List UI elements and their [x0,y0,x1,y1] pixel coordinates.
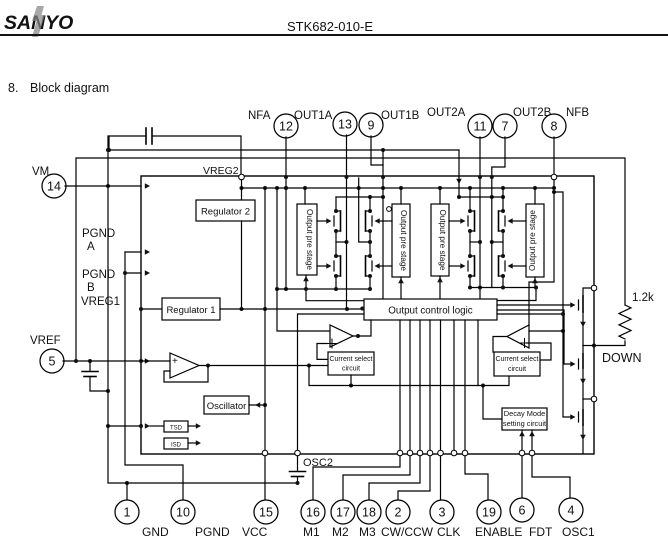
junction [534,286,538,290]
wire U3 out [493,337,507,353]
IC block outline [141,176,594,454]
junction [468,186,472,190]
svg-text:Regulator 2: Regulator 2 [201,207,250,218]
junction [368,229,372,233]
FET Q7 gate wire [512,220,526,222]
GND left rail [108,136,297,483]
junction [478,175,482,179]
junction [296,481,300,485]
wire pin12 [285,137,287,289]
junction [304,287,308,291]
pin 14 circle [42,174,66,198]
bridge A colL tie [336,241,347,243]
comparator U3 plus [520,342,529,344]
junction [123,271,127,275]
arrow PGND B into IC [145,270,150,276]
junction [501,209,505,213]
svg-text:6: 6 [519,504,526,518]
junction [240,307,244,311]
junction [206,364,210,368]
svg-text:11: 11 [474,120,487,134]
svg-text:Output pre stage: Output pre stage [399,210,408,271]
pin 12 circle [274,114,298,138]
junction [74,359,78,363]
pin 3 circle [430,500,454,524]
bus node [417,450,423,456]
bus wire [419,320,421,450]
wire OSC1 [532,456,570,499]
svg-text:PGND: PGND [82,228,115,240]
junction [345,175,349,179]
node VREG2 circle [239,174,245,180]
FET Q4 gate arrow [375,263,380,269]
FET Q2 gate arrow [326,263,331,269]
svg-text:A: A [87,241,95,253]
junction [468,229,472,233]
svg-text:STK682-010-E: STK682-010-E [287,19,373,34]
pin 15 circle [254,500,278,524]
arrow T3 gate [570,414,575,420]
junction [345,307,349,311]
arrow TSD into IC [145,423,150,429]
junction [334,254,338,258]
junction [88,359,92,363]
FET Q5 gate arrow [460,218,465,224]
junction [139,307,143,311]
svg-text:DOWN: DOWN [602,351,642,365]
FET Q3 gate arrow [375,218,380,224]
ISD box [164,438,188,449]
TSD box [164,421,188,432]
FET Q1 drain jog [336,210,341,212]
svg-text:Output pre stage: Output pre stage [438,210,447,271]
junction [106,184,110,188]
control rail T1 gate [497,304,571,306]
TSD out arrow [188,425,197,427]
junction [501,274,505,278]
wire VCC pin [264,456,266,501]
svg-text:VREG1: VREG1 [81,296,120,308]
wire prestage1 top [304,188,306,204]
svg-text:12: 12 [279,120,293,134]
pin 17 circle [331,500,355,524]
VM rail [242,187,555,189]
junction [334,209,338,213]
junction [368,209,372,213]
node NFB circle [551,174,557,180]
control rail OSC2 feed [298,314,365,450]
wire cap top right [152,136,241,174]
junction [275,186,279,190]
wire pin8 [553,137,555,174]
FET Q4 [371,261,373,271]
svg-text:VREG2: VREG2 [203,165,239,177]
junction [106,148,110,152]
junction [438,186,442,190]
arrow into decay 1 [519,431,525,436]
svg-text:CW/CCW: CW/CCW [381,525,434,539]
output control logic box [364,299,497,320]
svg-text:+: + [172,356,178,367]
wire decay up feed OSC1 [531,430,533,450]
svg-text:VM: VM [32,166,49,178]
wire cap to GND rail [90,377,108,391]
junction [478,240,482,244]
FET Q2 source jog [336,275,341,277]
wire prestage4 bottom [534,277,536,288]
svg-text:OSC1: OSC1 [562,525,595,539]
wire pin7 jog [492,137,505,288]
junction [381,175,385,179]
wire T2 source [582,368,584,399]
arrow T2 current [580,379,586,384]
wire ENABLE [465,456,488,501]
bus wire [399,320,401,450]
wire pin13 [346,135,348,309]
FET Q4 gate wire [379,265,392,267]
arrow VM into IC [145,183,150,189]
junction [481,384,485,388]
svg-text:9: 9 [368,119,375,133]
junction [561,329,565,333]
bridge B colL bus [469,188,471,211]
pin 5 circle [40,349,64,373]
svg-text:5: 5 [49,355,56,369]
regulator 1 box [162,298,220,320]
junction [284,175,288,179]
junction [307,364,311,368]
wire CLK [440,456,442,501]
pin 8 circle [542,114,566,138]
junction [468,209,472,213]
VCC rail [264,188,266,450]
FET Q7 gate arrow [508,218,513,224]
arrow into IC at 459 [456,179,462,184]
junction [368,254,372,258]
junction [284,287,288,291]
svg-text:Output control logic: Output control logic [388,306,473,317]
wire resistor bottom [594,341,625,346]
wire CW/CCW [398,456,430,501]
wire T1 source [582,312,584,346]
output pre stage 3 [431,204,449,276]
FET Q8 gate arrow [508,263,513,269]
pin 6 circle [510,498,534,522]
svg-text:B: B [87,282,95,294]
junction [303,186,307,190]
svg-text:Decay Mode: Decay Mode [504,409,546,418]
wire M3 [369,456,420,501]
bus node [407,450,413,456]
wire Regulator1 output rail [220,308,364,310]
arrow into prestage3 [437,277,443,282]
wire NFA sense to comparator [277,188,330,331]
junction [501,195,505,199]
svg-text:ENABLE: ENABLE [475,525,522,539]
VCC node [262,450,268,456]
svg-text:GND: GND [142,525,169,539]
wire FDT [521,456,523,499]
wire T2 drain [582,346,584,355]
wire U2 plus feed [317,344,328,360]
FET Q5 [467,216,469,226]
junction [501,286,505,290]
junction [501,254,505,258]
bus wire [464,320,466,450]
svg-text:PGND: PGND [195,525,230,539]
wire T2 to node [583,398,591,400]
bus node [397,450,403,456]
junction [263,186,267,190]
FET Q3 [371,216,373,226]
current select right box [494,352,540,376]
comparator U2 plus [328,343,337,345]
junction [106,424,110,428]
control rail T2 gate [497,310,571,364]
wire NFB to comparator [529,192,554,325]
wire into TSD [150,425,164,427]
node FDT [519,450,525,456]
wire VREG1 into Regulator 1 [141,308,162,310]
svg-text:8.: 8. [8,81,18,95]
pin 9 circle [359,113,383,137]
arrow PGND A into IC [145,249,150,255]
junction [468,286,472,290]
wire pin8 inside [553,180,555,188]
wire OSC2 [297,456,299,471]
svg-text:Block diagram: Block diagram [30,81,109,95]
wire decay up feed FDT [521,430,523,450]
junction [381,148,385,152]
svg-text:setting circuit: setting circuit [503,419,546,428]
svg-text:PGND: PGND [82,269,115,281]
arrow VREF into IC [145,358,150,364]
svg-text:VCC: VCC [242,525,268,539]
svg-text:M2: M2 [332,525,349,539]
junction [284,186,288,190]
junction [552,190,556,194]
FET Q7 drain jog [499,210,504,212]
svg-text:17: 17 [336,506,350,520]
junction [263,403,267,407]
decay mode box [502,408,547,430]
arrow T2 gate [570,361,575,367]
capacitor C3 OSC2 [290,471,306,473]
wire Regulator2 bottom [241,221,243,309]
svg-text:3: 3 [439,506,446,520]
current select left box [328,352,374,375]
bus node [451,450,457,456]
wire rail150 drop [458,150,460,177]
FET Q5 source jog [470,230,475,232]
FET Q8 gate wire [512,265,526,267]
bridge B colL tie [470,241,480,243]
svg-text:18: 18 [362,506,376,520]
bus wire short [477,320,479,386]
svg-text:Current select: Current select [330,356,373,363]
junction [345,240,349,244]
svg-text:OUT2A: OUT2A [427,107,466,119]
junction [284,186,288,190]
output pre stage 4 [526,204,544,277]
wire T3 source [582,425,584,453]
output pre stage 2 [392,204,410,277]
FET Q2 drain jog [336,255,341,257]
wire decay feed [483,386,502,420]
wire prestage2 top [400,188,402,204]
svg-text:Output pre stage: Output pre stage [528,210,537,271]
junction [357,186,361,190]
bridge A colR tie [359,178,370,242]
wire pin11 [479,137,481,299]
arrow into prestage1 [303,276,309,281]
header rule [0,34,668,36]
wire VREG2 drop to Regulator 2 [241,188,243,200]
bus wire [453,320,455,450]
rail OUT1B stub [336,196,383,198]
junction [399,186,403,190]
bridge A colR bus [369,197,371,211]
svg-text:15: 15 [259,506,273,520]
junction [501,229,505,233]
bridge B colR bus [502,188,504,211]
bridge B colR tie [492,241,503,243]
svg-text:M1: M1 [303,525,320,539]
svg-text:1: 1 [124,506,131,520]
bus wire [440,320,442,450]
arrow into prestage4 [532,278,538,283]
FET Q5 drain jog [470,210,475,212]
junction [107,148,111,152]
junction [263,307,267,311]
svg-text:10: 10 [176,506,190,520]
pin 16 circle [301,500,325,524]
junction [275,287,279,291]
junction [457,195,461,199]
svg-text:CLK: CLK [437,525,460,539]
wire PGND B [125,272,141,274]
junction [501,186,505,190]
pin 2 circle [386,500,410,524]
FET Q3 gate wire [379,220,392,222]
PGND vertical [125,252,183,501]
FET Q8 source jog [499,275,504,277]
FET Q7 [504,216,506,226]
wire VM [65,185,141,187]
FET Q4 source jog [366,275,371,277]
bus wire [409,320,411,450]
capacitor C2 [82,371,98,373]
FET Q6 drain jog [470,255,475,257]
svg-text:circuit: circuit [342,366,360,373]
FET Q5 gate wire [449,220,461,222]
pin 18 circle [357,500,381,524]
op-amp U1 [170,353,199,378]
junction [368,287,372,291]
wire T3 drain [582,399,584,410]
svg-text:14: 14 [47,180,61,194]
pin 11 circle [468,114,492,138]
svg-text:16: 16 [306,506,320,520]
junction [552,186,556,190]
wire U3 minus feed [529,330,563,332]
bus node [438,450,444,456]
svg-text:Regulator 1: Regulator 1 [166,305,215,316]
junction [490,240,494,244]
pin 10 circle [171,500,195,524]
bridge B sense drop [497,288,536,301]
arrow T3 current [580,435,586,440]
junction [334,229,338,233]
bus wire [429,320,431,450]
FET Q8 [504,261,506,271]
wire GND pin [126,483,128,501]
junction [381,186,385,190]
wire T1 to node [583,345,594,347]
wire CSL bottom [350,375,352,386]
node OSC1 feed [529,450,535,456]
svg-text:1.2k: 1.2k [632,292,654,304]
wire prestage4 top [534,188,536,204]
svg-text:2: 2 [395,506,402,520]
svg-text:13: 13 [338,118,352,132]
wire prestage3 top [439,188,441,204]
junction [360,307,364,311]
svg-text:Current select: Current select [496,356,539,363]
wire prestage2 bottom [400,277,402,299]
wire M1 [313,456,400,501]
svg-text:NFA: NFA [248,110,271,122]
svg-text:19: 19 [482,506,496,520]
wire TSD feed [108,425,141,427]
FET Q3 drain jog [366,210,371,212]
wire pin9 jog [371,136,383,165]
svg-text:circuit: circuit [508,366,526,373]
junction [125,481,129,485]
FET Q7 source jog [499,230,504,232]
FET Q3 source jog [366,230,371,232]
bridge A sense rail [277,288,370,290]
select rail [309,366,509,386]
control rail T3 [497,313,563,315]
bubble on pre stage 2 [387,207,392,212]
svg-text:ISD: ISD [171,443,182,449]
FET Q2 gate wire [317,265,327,267]
wire PGND A [125,251,141,253]
junction [240,186,244,190]
wire VREG2 to rail [241,180,243,188]
junction [381,195,385,199]
junction [368,240,372,244]
junction [368,195,372,199]
resistor 1.2k [619,305,631,339]
rail 158 [76,158,625,360]
wire prestage1 bottom [306,275,364,301]
FET Q1 gate arrow [326,218,331,224]
pin 1 circle [115,500,139,524]
output pre stage 1 [297,204,317,275]
bus node [427,450,433,456]
wire 459 inside [458,177,460,197]
junction [490,195,494,199]
FET Q4 drain jog [366,255,371,257]
arrow T1 gate [570,302,575,308]
wire VREF to op-amp [141,360,170,362]
wire cap top left [109,136,146,150]
FET Q6 gate wire [449,265,461,267]
OSC2 node [295,450,301,456]
junction [139,424,143,428]
